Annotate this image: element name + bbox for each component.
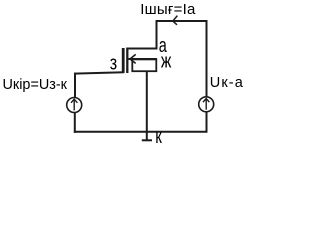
- wire left upper: [74, 73, 76, 98]
- svg-text:Iшығ=Iа: Iшығ=Iа: [140, 1, 196, 18]
- wire bottom: [74, 131, 208, 133]
- wire left lower: [74, 113, 76, 133]
- svg-text:Uкір=Uз-к: Uкір=Uз-к: [3, 76, 68, 93]
- wire anode lead: [127, 48, 158, 50]
- wire right lower: [206, 112, 208, 132]
- transistor VT source arrow: [130, 54, 136, 63]
- ground tick k: [142, 139, 152, 141]
- wire cathode lead: [146, 71, 148, 142]
- current arrow Ia on top wire: [173, 16, 178, 25]
- svg-text:к: к: [155, 126, 162, 147]
- svg-text:Uк-а: Uк-а: [210, 75, 244, 91]
- wire gate lead: [74, 72, 124, 73]
- wire top: [156, 20, 208, 22]
- voltage source left G1: [67, 98, 82, 113]
- voltage source right G2: [199, 97, 214, 112]
- wire right upper: [206, 20, 208, 97]
- transistor VT body box: [132, 59, 156, 71]
- wire middle lead: [129, 58, 158, 60]
- transistor VT channel bar: [126, 48, 128, 74]
- svg-text:з: з: [110, 53, 117, 75]
- transistor VT gate bar: [122, 48, 125, 73]
- svg-text:ж: ж: [161, 50, 172, 72]
- wire drain riser: [156, 21, 158, 49]
